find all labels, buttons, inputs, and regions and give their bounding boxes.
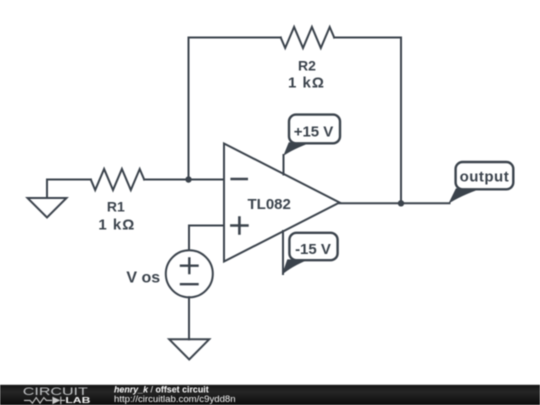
callout output box — [456, 162, 514, 189]
op-amp U1 triangle — [224, 144, 340, 262]
wire top horizontal right segment — [334, 37, 401, 39]
ground GND1 — [28, 198, 67, 218]
svg-text:TL082: TL082 — [248, 196, 291, 213]
wire feedback left vertical — [188, 38, 190, 180]
op-amp minus symbol — [232, 178, 247, 181]
wire +15V supply — [283, 155, 285, 175]
wire top horizontal left segment — [189, 37, 281, 39]
output wire — [340, 202, 450, 204]
wire feedback right vertical — [400, 38, 402, 204]
svg-text:V os: V os — [126, 269, 160, 286]
ground GND2 — [169, 339, 209, 359]
wire input right segment to op-amp — [144, 179, 224, 181]
footer bar — [0, 385, 540, 405]
source Vos minus sign — [181, 283, 198, 285]
svg-text:-15 V: -15 V — [295, 241, 331, 258]
callout -15V box — [289, 233, 337, 260]
callout output tail — [448, 188, 482, 204]
node junction output — [398, 200, 404, 206]
svg-text:1 kΩ: 1 kΩ — [288, 75, 325, 92]
node junction inverting input — [185, 176, 191, 182]
svg-text:R2: R2 — [298, 58, 316, 74]
wire noninverting input — [189, 226, 224, 251]
svg-text:R1: R1 — [107, 198, 125, 214]
callout +15V box — [289, 115, 340, 144]
source Vos circle — [166, 250, 213, 297]
op-amp plus symbol — [231, 218, 247, 234]
svg-text:LAB: LAB — [65, 395, 90, 405]
callout +15V tail — [283, 142, 312, 156]
svg-text:http://circuitlab.com/c9ydd8n: http://circuitlab.com/c9ydd8n — [114, 394, 236, 405]
wire ground stub left — [46, 180, 48, 199]
svg-text:1 kΩ: 1 kΩ — [98, 217, 135, 234]
svg-text:henry_k / offset circuit: henry_k / offset circuit — [114, 384, 209, 394]
resistor R2 — [281, 27, 335, 48]
callout -15V tail — [282, 259, 309, 275]
svg-text:output: output — [460, 168, 510, 185]
svg-text:+15 V: +15 V — [294, 123, 334, 140]
logo resistor-diode glyph — [24, 397, 65, 405]
resistor R1 — [91, 169, 144, 190]
wire -15V supply — [282, 231, 284, 274]
wire input left segment — [47, 179, 91, 181]
wire Vos to ground — [188, 297, 190, 339]
source Vos plus sign — [181, 259, 198, 274]
